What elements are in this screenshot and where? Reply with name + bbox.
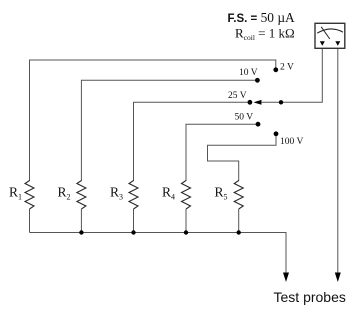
- node bus junction at R2: [79, 230, 83, 234]
- svg-text:25 V: 25 V: [228, 91, 247, 101]
- wire bottom bus: [30, 233, 287, 273]
- svg-text:R1: R1: [9, 185, 22, 202]
- svg-text:R2: R2: [58, 185, 71, 202]
- switch selector arrow (points to 25V tap): [254, 100, 262, 105]
- node 50V tap dot: [256, 122, 261, 127]
- wire right probe from meter right terminal: [337, 48, 339, 273]
- node 10V tap dot: [255, 78, 260, 83]
- svg-text:R3: R3: [110, 185, 123, 202]
- meter right terminal pin: [335, 41, 340, 46]
- svg-text:R5: R5: [215, 185, 228, 202]
- meter needle: [321, 27, 330, 39]
- svg-text:100 V: 100 V: [280, 137, 303, 147]
- right test probe arrowhead: [335, 273, 341, 283]
- node bus junction at R5: [237, 230, 241, 234]
- node bus junction at R3: [131, 230, 135, 234]
- wire 10V branch: R2 top up, across, to 10V tap: [81, 80, 255, 181]
- resistor R2: [77, 181, 86, 210]
- node 2V tap dot: [273, 67, 278, 72]
- svg-text:Test probes: Test probes: [274, 289, 346, 305]
- meter left terminal pin: [320, 41, 325, 46]
- wire 2V branch: R1 top up, across top, down to 2V tap: [30, 60, 276, 181]
- svg-text:F.S. = 50 µA: F.S. = 50 µA: [228, 10, 296, 25]
- meter scale arc: [317, 29, 343, 33]
- node 25V tap dot: [248, 100, 253, 105]
- resistor R5: [234, 181, 243, 210]
- svg-text:50 V: 50 V: [235, 113, 254, 123]
- svg-text:10 V: 10 V: [239, 68, 258, 78]
- wire selector to meter left terminal: [261, 48, 322, 102]
- wire 50V branch: R4 top up, across, to 50V tap: [186, 124, 256, 181]
- svg-text:Rcoil = 1 kΩ: Rcoil = 1 kΩ: [235, 26, 295, 43]
- svg-text:R4: R4: [162, 185, 175, 202]
- node bus junction at R4: [184, 230, 188, 234]
- meter M body: [315, 23, 345, 48]
- svg-text:2 V: 2 V: [280, 63, 294, 73]
- resistor R1: [25, 181, 34, 210]
- wire 100V branch: R5 top up, jog left then right up to 100V tap: [208, 135, 277, 181]
- resistor R3: [129, 181, 138, 210]
- resistor R4: [182, 181, 191, 210]
- wire 25V branch: R3 top up, across, to 25V tap: [134, 102, 249, 181]
- left test probe arrowhead: [283, 273, 289, 283]
- node 100V tap dot: [274, 131, 279, 136]
- node junction on selector wire: [279, 100, 283, 104]
